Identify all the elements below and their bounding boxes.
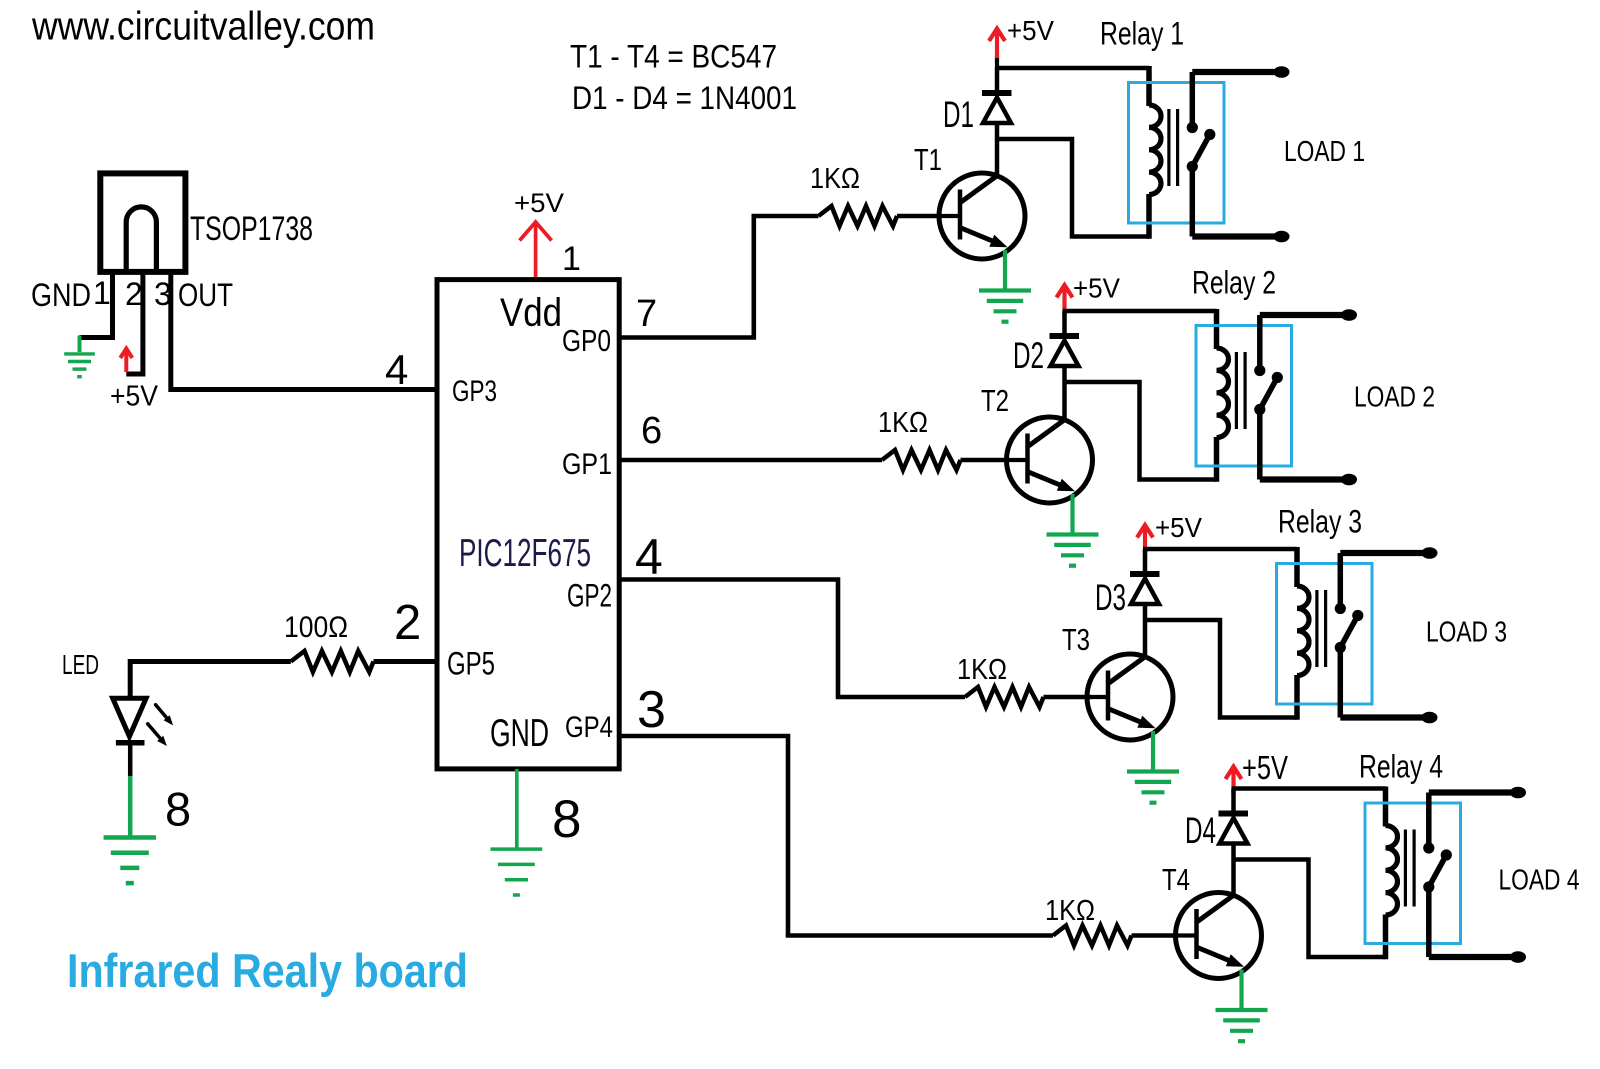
svg-text:LED: LED (62, 649, 99, 680)
svg-text:GP5: GP5 (447, 646, 495, 682)
svg-text:1KΩ: 1KΩ (810, 163, 860, 195)
svg-text:8: 8 (552, 790, 581, 849)
svg-text:1: 1 (93, 275, 111, 311)
svg-text:7: 7 (636, 293, 657, 335)
svg-text:4: 4 (385, 346, 408, 393)
svg-text:T4: T4 (1162, 862, 1190, 897)
svg-text:D2: D2 (1013, 335, 1044, 376)
svg-text:LOAD 4: LOAD 4 (1499, 865, 1580, 897)
svg-text:T3: T3 (1062, 622, 1090, 657)
svg-text:GP4: GP4 (565, 711, 613, 744)
svg-text:8: 8 (165, 783, 191, 836)
svg-text:2: 2 (394, 596, 421, 650)
svg-text:GND: GND (31, 277, 91, 313)
svg-text:1KΩ: 1KΩ (1045, 895, 1095, 927)
svg-text:100Ω: 100Ω (284, 611, 348, 644)
svg-text:1KΩ: 1KΩ (957, 654, 1007, 686)
svg-text:LOAD 2: LOAD 2 (1354, 382, 1435, 414)
svg-text:OUT: OUT (178, 277, 233, 313)
svg-text:LOAD 3: LOAD 3 (1426, 617, 1507, 649)
svg-text:TSOP1738: TSOP1738 (190, 210, 313, 248)
svg-text:Infrared Realy board: Infrared Realy board (67, 944, 468, 997)
svg-text:T1 - T4 = BC547: T1 - T4 = BC547 (570, 39, 777, 75)
svg-text:+5V: +5V (1073, 273, 1120, 304)
svg-text:+5V: +5V (514, 188, 564, 218)
svg-text:GP3: GP3 (452, 375, 497, 408)
svg-text:D1: D1 (943, 94, 974, 135)
svg-text:T1: T1 (914, 142, 942, 177)
svg-text:GP2: GP2 (567, 578, 612, 614)
svg-text:+5V: +5V (1242, 749, 1288, 786)
svg-text:Relay 2: Relay 2 (1192, 265, 1276, 301)
svg-text:D1 - D4 = 1N4001: D1 - D4 = 1N4001 (572, 80, 797, 116)
svg-text:GP0: GP0 (562, 323, 611, 358)
svg-text:+5V: +5V (110, 381, 159, 413)
svg-text:Relay 4: Relay 4 (1359, 749, 1443, 785)
svg-text:3: 3 (637, 681, 666, 739)
svg-text:1: 1 (562, 240, 581, 278)
svg-text:6: 6 (641, 410, 662, 452)
svg-text:PIC12F675: PIC12F675 (459, 532, 591, 575)
svg-text:T2: T2 (981, 383, 1009, 418)
svg-text:4: 4 (635, 529, 663, 585)
svg-text:Relay 1: Relay 1 (1100, 16, 1184, 52)
svg-text:2: 2 (125, 276, 143, 312)
svg-text:D4: D4 (1185, 810, 1216, 851)
svg-text:GP1: GP1 (562, 448, 612, 481)
svg-text:Relay 3: Relay 3 (1278, 504, 1362, 540)
svg-text:GND: GND (490, 712, 549, 755)
svg-text:LOAD 1: LOAD 1 (1284, 136, 1365, 168)
svg-text:1KΩ: 1KΩ (878, 407, 928, 439)
svg-text:www.circuitvalley.com: www.circuitvalley.com (31, 5, 375, 49)
svg-text:D3: D3 (1095, 577, 1126, 618)
svg-text:+5V: +5V (1155, 512, 1202, 543)
svg-text:+5V: +5V (1007, 15, 1054, 46)
svg-text:Vdd: Vdd (500, 291, 562, 335)
